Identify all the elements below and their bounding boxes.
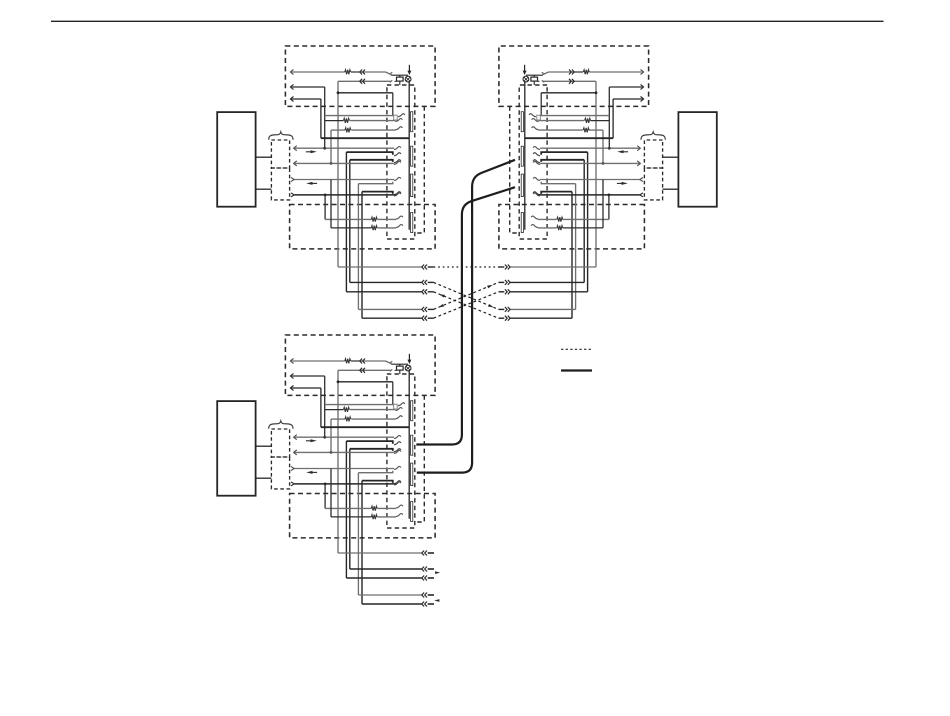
top horizontal rule: [51, 20, 884, 22]
station B drop wires: [572, 249, 596, 318]
wire drop C3: [345, 538, 347, 578]
station A drop wires: [338, 249, 362, 318]
wire drop B3: [587, 249, 589, 292]
outgoing line C5: [362, 603, 422, 605]
interconnect line 3: [346, 291, 587, 293]
crossover dashed diagonal 3: [434, 282, 499, 309]
station A block (top left): [217, 46, 435, 249]
wire drop C5: [361, 538, 363, 604]
wire drop C4: [357, 538, 359, 595]
interconnect line 1: [338, 266, 596, 268]
station B block (top right, mirrored): [499, 46, 717, 249]
crossover arrow 3: [438, 304, 444, 309]
legend dashed sample: [561, 348, 592, 350]
station C block (bottom left): [217, 335, 435, 538]
crossover dashed diagonal 2: [434, 292, 499, 318]
crossover arrow 1: [439, 293, 445, 298]
wire drop B2: [583, 249, 585, 283]
outgoing line C2: [350, 568, 422, 570]
wire drop B4: [575, 249, 577, 310]
wire drop C2: [349, 538, 351, 569]
trunk cable 2 (thick): [416, 187, 515, 444]
crossover dashed diagonal 4: [434, 292, 499, 318]
wire drop B1: [595, 249, 597, 267]
crossover arrow 2: [487, 284, 493, 289]
wire drop C1: [337, 538, 339, 553]
interconnect line 2: [350, 281, 584, 283]
interconnect line 5: [362, 317, 572, 319]
outgoing direction arrow right: [435, 571, 440, 574]
interconnect line 4: [358, 308, 575, 310]
wire drop A3: [345, 249, 347, 292]
outgoing line C3: [346, 577, 421, 579]
crossover arrow 4: [488, 304, 494, 309]
station C drop wires: [338, 538, 362, 604]
crossover dashed diagonal 1: [434, 282, 499, 309]
wire drop A5: [361, 249, 363, 318]
wire drop A4: [357, 249, 359, 310]
outgoing line C4: [358, 594, 421, 596]
wire drop B5: [571, 249, 573, 318]
outgoing direction arrow left: [434, 599, 439, 602]
outgoing line C1: [338, 552, 422, 554]
legend thick sample: [561, 369, 592, 371]
wire drop A1: [337, 249, 339, 267]
wire drop A2: [349, 249, 351, 283]
trunk cable 1 (thick): [417, 160, 515, 473]
